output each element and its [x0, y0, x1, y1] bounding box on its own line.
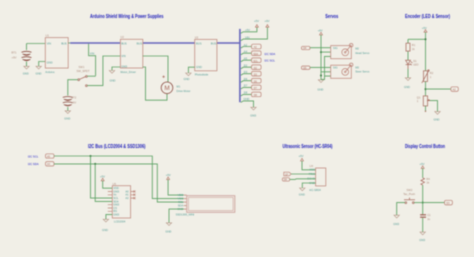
- svg-text:GND: GND: [299, 192, 305, 196]
- svg-text:D6: D6: [244, 77, 248, 81]
- svg-text:GND: GND: [36, 72, 42, 76]
- svg-text:+5V: +5V: [245, 28, 250, 32]
- svg-text:R1: R1: [412, 43, 416, 47]
- svg-text:GND: GND: [113, 213, 119, 217]
- svg-text:1u: 1u: [427, 217, 430, 221]
- svg-text:A2: A2: [125, 196, 129, 200]
- svg-text:Arduino: Arduino: [45, 70, 55, 74]
- svg-text:U4: U4: [310, 164, 314, 168]
- svg-text:I2C SCL: I2C SCL: [264, 59, 275, 63]
- svg-text:GND: GND: [250, 113, 256, 117]
- svg-text:A4: A4: [244, 50, 248, 54]
- svg-text:1: 1: [430, 75, 432, 79]
- svg-text:I2C SCL: I2C SCL: [28, 154, 39, 158]
- svg-text:Motor_Driver: Motor_Driver: [120, 70, 136, 74]
- svg-text:D1: D1: [413, 59, 417, 63]
- svg-text:HC-SR04: HC-SR04: [309, 188, 321, 192]
- svg-text:Photodiode: Photodiode: [195, 73, 209, 77]
- svg-text:C1: C1: [427, 213, 431, 217]
- svg-text:+6V: +6V: [71, 100, 76, 104]
- svg-text:U3: U3: [195, 35, 199, 39]
- svg-text:Servos: Servos: [325, 14, 338, 20]
- svg-text:+9V: +9V: [265, 19, 270, 23]
- svg-text:1: 1: [417, 99, 419, 103]
- svg-text:I2C SDA: I2C SDA: [28, 162, 39, 166]
- svg-text:+9V: +9V: [12, 56, 17, 60]
- svg-text:M2: M2: [355, 46, 359, 50]
- svg-text:D2: D2: [244, 64, 248, 68]
- svg-text:GND: GND: [393, 222, 399, 226]
- svg-text:U2: U2: [120, 35, 124, 39]
- svg-text:R4: R4: [426, 177, 430, 181]
- svg-text:GND: GND: [196, 65, 202, 69]
- svg-text:GND: GND: [47, 60, 53, 64]
- svg-text:Steer Servo: Steer Servo: [355, 70, 370, 74]
- svg-text:1k: 1k: [426, 181, 429, 185]
- svg-text:SDA: SDA: [253, 53, 258, 56]
- svg-text:GND: GND: [165, 229, 171, 233]
- svg-text:+5V: +5V: [254, 19, 259, 23]
- svg-text:VIN: VIN: [121, 54, 126, 58]
- svg-text:Q1: Q1: [417, 95, 421, 99]
- svg-text:D3: D3: [244, 70, 248, 74]
- svg-text:GND: GND: [102, 228, 108, 232]
- svg-text:GND: GND: [317, 88, 323, 92]
- svg-text:GND: GND: [404, 85, 410, 89]
- svg-text:I2C Bus (LCD2004 & SSD1306): I2C Bus (LCD2004 & SSD1306): [88, 144, 146, 150]
- svg-text:SW2: SW2: [407, 188, 413, 192]
- svg-text:BUS: BUS: [137, 41, 143, 45]
- svg-text:BUS: BUS: [196, 41, 202, 45]
- svg-text:+5V: +5V: [166, 173, 171, 177]
- svg-text:BT2: BT2: [71, 96, 76, 100]
- svg-text:M: M: [164, 85, 169, 92]
- svg-text:D8: D8: [244, 91, 248, 95]
- svg-text:SDA: SDA: [178, 204, 184, 208]
- svg-text:VCC: VCC: [309, 168, 315, 172]
- svg-text:I2C SDA: I2C SDA: [264, 52, 275, 56]
- svg-text:SW1: SW1: [79, 65, 85, 69]
- svg-text:GND: GND: [434, 117, 440, 121]
- svg-text:GND: GND: [419, 238, 425, 242]
- svg-text:GND: GND: [243, 97, 249, 101]
- svg-text:SCL: SCL: [253, 60, 258, 63]
- svg-text:+6V: +6V: [318, 29, 323, 33]
- svg-text:GND: GND: [23, 72, 29, 76]
- svg-text:U5: U5: [113, 182, 117, 186]
- svg-text:GND: GND: [121, 65, 127, 69]
- svg-text:BT1: BT1: [12, 51, 17, 55]
- svg-text:Head Servo: Head Servo: [355, 51, 370, 55]
- svg-text:VCC: VCC: [178, 197, 184, 201]
- svg-text:Drive Motor: Drive Motor: [177, 89, 191, 93]
- svg-text:VIN: VIN: [47, 41, 52, 45]
- svg-text:Display Control Button: Display Control Button: [405, 144, 445, 150]
- svg-text:Tac_Push: Tac_Push: [403, 192, 415, 196]
- svg-text:Encoder (LED & Sensor): Encoder (LED & Sensor): [405, 14, 450, 20]
- svg-text:LCD2004: LCD2004: [114, 220, 126, 224]
- svg-text:M1: M1: [177, 85, 181, 89]
- svg-text:M3: M3: [355, 65, 359, 69]
- svg-text:BUS: BUS: [121, 41, 127, 45]
- svg-text:BUS: BUS: [61, 41, 67, 45]
- svg-text:+5V: +5V: [100, 174, 105, 178]
- svg-text:SIG: SIG: [333, 46, 338, 50]
- svg-text:R2: R2: [430, 71, 434, 75]
- svg-text:BUS: BUS: [211, 41, 217, 45]
- svg-text:GND: GND: [110, 78, 116, 82]
- svg-text:LED: LED: [413, 63, 418, 67]
- svg-text:Ultrasonic Sensor (HC-SR04): Ultrasonic Sensor (HC-SR04): [283, 144, 333, 150]
- svg-text:A5: A5: [244, 57, 248, 61]
- svg-text:GND: GND: [64, 117, 70, 121]
- svg-text:VIN: VIN: [90, 52, 95, 56]
- svg-text:GND: GND: [184, 77, 190, 81]
- svg-text:SSD1306_MINI: SSD1306_MINI: [176, 213, 195, 217]
- svg-text:SCL: SCL: [178, 200, 184, 204]
- svg-text:+5V: +5V: [299, 154, 304, 158]
- svg-text:SIG: SIG: [333, 66, 338, 70]
- svg-text:D7: D7: [244, 84, 248, 88]
- svg-text:A2: A2: [244, 43, 248, 47]
- svg-text:+5V: +5V: [420, 162, 425, 166]
- svg-text:+5V: +5V: [422, 26, 427, 30]
- svg-text:VIN: VIN: [245, 36, 250, 40]
- svg-text:SW_SPDT: SW_SPDT: [77, 69, 90, 73]
- svg-text:Arduino Shield Wiring & Power: Arduino Shield Wiring & Power Supplies: [90, 14, 164, 20]
- svg-text:U1: U1: [46, 34, 50, 38]
- svg-text:1k: 1k: [412, 47, 415, 51]
- svg-text:VDD: VDD: [178, 193, 184, 197]
